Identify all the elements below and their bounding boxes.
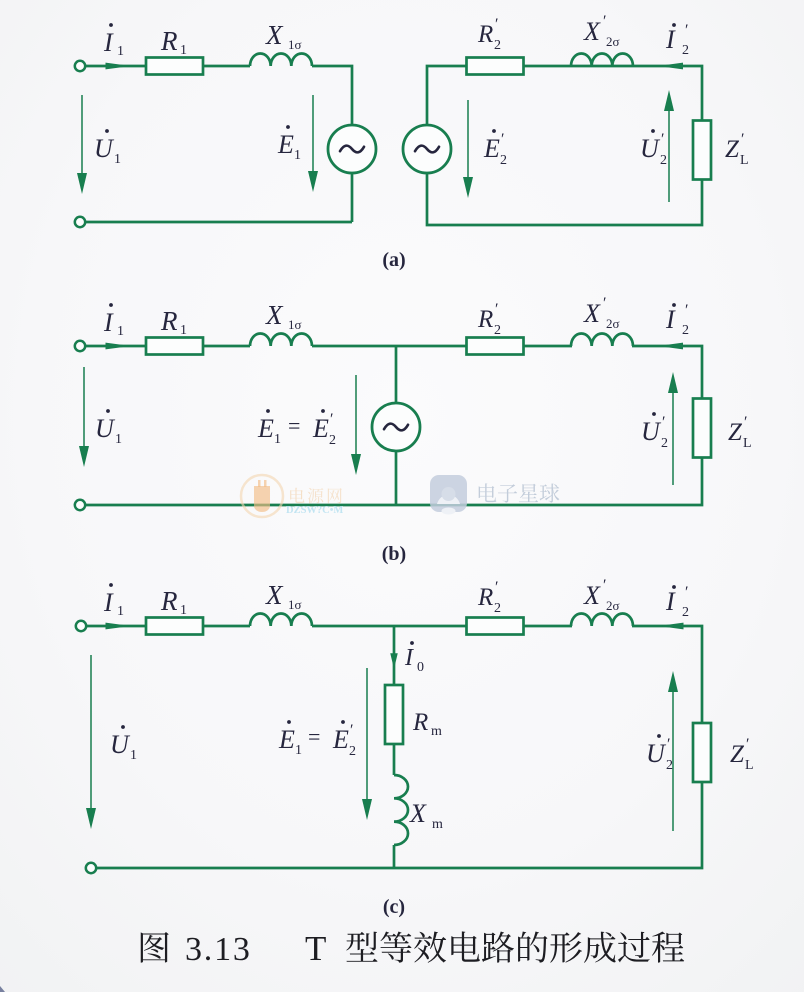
svg-text:R: R <box>160 306 178 336</box>
svg-text:2σ: 2σ <box>606 598 620 613</box>
svg-text:L: L <box>740 153 749 168</box>
svg-text:′: ′ <box>661 414 665 431</box>
svg-text:2: 2 <box>329 433 336 448</box>
svg-text:′: ′ <box>349 722 353 739</box>
svg-text:′: ′ <box>500 131 504 148</box>
svg-text:(b): (b) <box>382 543 406 565</box>
svg-text:X: X <box>409 799 427 828</box>
svg-text:U: U <box>94 134 115 163</box>
svg-text:2: 2 <box>661 436 668 451</box>
svg-text:2: 2 <box>682 43 689 58</box>
svg-text:′: ′ <box>743 414 747 431</box>
svg-text:Z: Z <box>725 136 740 163</box>
svg-text:1: 1 <box>115 432 122 447</box>
svg-text:2: 2 <box>682 605 689 620</box>
svg-text:E: E <box>278 725 295 754</box>
svg-text:2: 2 <box>494 601 501 616</box>
svg-text:2σ: 2σ <box>606 316 620 331</box>
svg-text:T: T <box>305 929 326 968</box>
svg-text:I: I <box>665 25 676 54</box>
svg-text:L: L <box>745 758 754 773</box>
svg-text:1: 1 <box>117 44 124 59</box>
svg-text:′: ′ <box>602 295 606 312</box>
svg-text:E: E <box>483 134 500 163</box>
svg-text:I: I <box>665 305 676 334</box>
svg-text:2: 2 <box>349 744 356 759</box>
svg-text:U: U <box>641 417 662 446</box>
svg-text:E: E <box>332 725 349 754</box>
svg-text:(c): (c) <box>383 896 405 918</box>
svg-text:1σ: 1σ <box>288 37 302 52</box>
svg-text:2: 2 <box>500 153 507 168</box>
svg-text:1σ: 1σ <box>288 597 302 612</box>
svg-text:Z: Z <box>730 741 745 768</box>
svg-text:′: ′ <box>494 301 498 318</box>
svg-text:m: m <box>432 817 443 832</box>
svg-text:R: R <box>477 584 493 611</box>
svg-text:=: = <box>288 413 300 438</box>
svg-text:I: I <box>103 308 114 337</box>
svg-text:1: 1 <box>130 748 137 763</box>
svg-text:U: U <box>110 730 131 759</box>
svg-text:2: 2 <box>682 323 689 338</box>
svg-text:1: 1 <box>295 743 302 758</box>
svg-text:2σ: 2σ <box>606 34 620 49</box>
svg-text:R: R <box>412 709 428 736</box>
svg-text:1: 1 <box>180 43 187 58</box>
svg-text:U: U <box>95 414 116 443</box>
svg-text:2: 2 <box>494 323 501 338</box>
svg-text:I: I <box>103 588 114 617</box>
svg-text:E: E <box>312 414 329 443</box>
svg-text:′: ′ <box>684 302 688 319</box>
svg-text:2: 2 <box>666 758 673 773</box>
svg-text:1: 1 <box>114 152 121 167</box>
svg-text:1: 1 <box>180 323 187 338</box>
svg-text:′: ′ <box>602 577 606 594</box>
svg-text:Z: Z <box>728 419 743 446</box>
svg-text:′: ′ <box>684 22 688 39</box>
svg-text:′: ′ <box>740 131 744 148</box>
svg-text:X: X <box>583 581 601 610</box>
svg-text:L: L <box>743 436 752 451</box>
svg-text:R: R <box>160 586 178 616</box>
svg-text:′: ′ <box>745 736 749 753</box>
svg-text:2: 2 <box>494 38 501 53</box>
svg-text:3.13: 3.13 <box>185 931 252 968</box>
svg-text:=: = <box>308 724 320 749</box>
svg-text:m: m <box>431 724 442 739</box>
svg-text:R: R <box>477 306 493 333</box>
svg-text:′: ′ <box>660 131 664 148</box>
svg-text:X: X <box>265 300 284 330</box>
svg-text:I: I <box>665 587 676 616</box>
svg-text:(a): (a) <box>382 249 405 271</box>
svg-text:E: E <box>277 130 294 159</box>
svg-text:E: E <box>257 414 274 443</box>
svg-text:I: I <box>404 645 414 671</box>
svg-text:U: U <box>646 739 667 768</box>
svg-text:′: ′ <box>666 736 670 753</box>
svg-text:′: ′ <box>602 13 606 30</box>
svg-text:1: 1 <box>117 604 124 619</box>
svg-text:1: 1 <box>117 324 124 339</box>
svg-text:′: ′ <box>494 579 498 596</box>
svg-text:R: R <box>477 21 493 48</box>
svg-text:U: U <box>640 134 661 163</box>
svg-text:R: R <box>160 26 178 56</box>
svg-text:1σ: 1σ <box>288 317 302 332</box>
svg-text:1: 1 <box>180 603 187 618</box>
svg-text:′: ′ <box>494 16 498 33</box>
svg-text:1: 1 <box>274 432 281 447</box>
svg-text:X: X <box>583 17 601 46</box>
svg-text:X: X <box>583 299 601 328</box>
svg-text:′: ′ <box>684 584 688 601</box>
svg-text:I: I <box>103 28 114 57</box>
svg-text:0: 0 <box>417 660 424 675</box>
svg-text:′: ′ <box>329 411 333 428</box>
svg-text:DZSW?C•M: DZSW?C•M <box>286 505 343 516</box>
svg-text:2: 2 <box>660 153 667 168</box>
svg-text:1: 1 <box>294 148 301 163</box>
svg-text:X: X <box>265 20 284 50</box>
svg-text:X: X <box>265 580 284 610</box>
